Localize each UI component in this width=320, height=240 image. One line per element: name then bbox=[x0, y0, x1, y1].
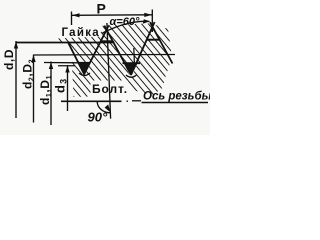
root rounding V1 bbox=[79, 73, 90, 76]
svg-text:d1,D1: d1,D1 bbox=[38, 75, 53, 105]
stub line V2 bbox=[133, 48, 136, 66]
crest flat 1 bbox=[100, 40, 113, 42]
P extension right bbox=[151, 10, 153, 33]
axis line bbox=[61, 100, 122, 102]
svg-text:Болт.: Болт. bbox=[92, 82, 128, 96]
dim line d2,D2 bbox=[33, 55, 35, 123]
alpha arc bbox=[103, 21, 150, 33]
svg-text:90°: 90° bbox=[88, 110, 108, 125]
nut hatched region bbox=[57, 24, 172, 64]
major diameter line d,D bbox=[16, 42, 115, 44]
root triangle V1 bbox=[79, 63, 91, 75]
svg-text:Гайка: Гайка bbox=[62, 27, 100, 39]
svg-text:d,D: d,D bbox=[2, 49, 16, 70]
svg-text:Ось резьбы: Ось резьбы bbox=[143, 91, 210, 103]
profile flank A bbox=[68, 42, 85, 75]
root triangle V2 bbox=[125, 64, 138, 76]
profile flank B bbox=[84, 26, 109, 75]
pitch diameter line d2,D2 bbox=[34, 54, 176, 57]
root flat V2 bbox=[123, 62, 141, 64]
svg-text:d2,D2: d2,D2 bbox=[21, 59, 36, 89]
root flat V1 bbox=[79, 62, 91, 64]
dim line d,D bbox=[15, 41, 17, 118]
dim line d3 bbox=[67, 65, 69, 111]
bisector line bbox=[107, 23, 111, 119]
profile flank E bbox=[150, 22, 173, 63]
bolt hatched body bbox=[72, 40, 171, 97]
svg-text:α=60°: α=60° bbox=[110, 16, 140, 28]
svg-text:P: P bbox=[97, 1, 106, 17]
dim line d1,D1 bbox=[50, 62, 52, 126]
P extension left bbox=[71, 12, 73, 26]
profile flank C bbox=[104, 26, 131, 76]
profile flank D bbox=[131, 22, 155, 75]
underline bbox=[142, 102, 209, 104]
root rounding V2 bbox=[126, 75, 137, 77]
bolt root diameter line d3 bbox=[58, 65, 75, 67]
minor diameter line d1,D1 bbox=[44, 62, 79, 64]
90 degree arc bbox=[97, 102, 110, 113]
P dimension line bbox=[72, 14, 153, 17]
crest flat 2 bbox=[147, 39, 160, 41]
